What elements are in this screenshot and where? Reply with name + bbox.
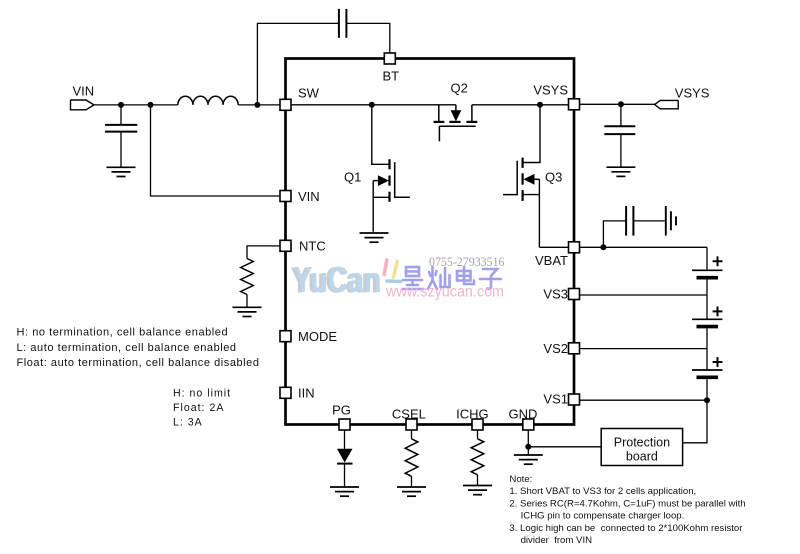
wire SW up to bootstrap capacitor [257,23,339,105]
protection board box [601,429,682,466]
svg-text:YuCan: YuCan [294,259,382,300]
wire VS2 net down to B3 [706,349,708,370]
junction dot C1 [118,102,124,108]
svg-text:VSYS: VSYS [675,86,710,101]
junction dot VS1 battery [704,397,710,403]
junction dot Q1 drain branch [369,102,375,108]
ground under Q1 [360,233,389,242]
svg-text:Note:: Note: [509,474,532,485]
node NTC pin label [299,239,326,254]
svg-text:0755-27933516: 0755-27933516 [429,254,505,269]
watermark website url [385,284,504,301]
svg-text:IIN: IIN [298,386,315,401]
wire B3 to VS1 net [706,379,708,400]
wire B1 to VS3 net [706,280,708,296]
node VS3 pin label [543,287,568,302]
junction dot Q3 drain branch [537,102,543,108]
node BT pin label [383,69,400,84]
pin ICHG [472,419,483,430]
svg-text:Q2: Q2 [451,81,468,96]
node VSYS output terminal [655,100,679,108]
capacitor C2 bootstrap BT cap [339,9,347,38]
node Q2 label [451,81,468,96]
resistor R3 on ICHG pin [471,430,484,485]
node IIN pin label [298,386,315,401]
node VIN label [73,84,95,99]
pin VS2 [569,343,580,354]
wire VS3 pin to battery stack [580,294,708,296]
svg-text:VS3: VS3 [543,287,568,302]
svg-text:H: no limit: H: no limit [173,388,231,400]
wire SW net to Q2 drain side [291,104,456,106]
svg-text:NTC: NTC [299,239,326,254]
ground under ICHG resistor [463,486,492,495]
svg-text:L: 3A: L: 3A [173,417,203,429]
svg-text:GND: GND [509,406,538,421]
battery cell B1 [692,256,723,277]
node protection board label [614,436,670,464]
node VBAT pin label [535,253,568,268]
svg-text:VIN: VIN [298,189,320,204]
wire battery stack column top [706,247,708,270]
pin BT [384,53,395,64]
pin CSEL [406,419,417,430]
watermark flower mark [384,260,400,282]
node VIN pin label [298,189,320,204]
svg-text:ICHG pin to compensate charger: ICHG pin to compensate charger loop. [521,511,685,522]
svg-text:L: auto termination, cell bala: L: auto termination, cell balance enable… [17,342,237,354]
svg-text:Float: auto termination, cell: Float: auto termination, cell balance di… [17,357,260,369]
svg-text:3. Logic high can be connecte: 3. Logic high can be connected to 2*100K… [509,523,743,534]
battery cell B2 [692,307,723,327]
wire Q3 source to VBAT pin [539,246,569,248]
watermark YuCan logo text [291,259,382,301]
watermark phone number 0755-27933516 [429,254,505,269]
node VS2 pin label [543,341,568,356]
node MODE options annotation [17,327,260,370]
node VIN input terminal [71,100,95,110]
svg-text:CSEL: CSEL [392,406,426,421]
pin VS3 [569,289,580,300]
svg-text:www.szyucan.com: www.szyucan.com [385,284,504,301]
capacitor C3 VSYS output cap [604,104,635,167]
wire VS3 net down to B2 [706,295,708,319]
node ICHG pin label [456,406,489,421]
node MODE pin label [298,329,337,344]
junction dot VIN branch [148,102,154,108]
wire VSYS pin to output tag [580,103,656,105]
pin IIN [280,387,291,398]
svg-text:VIN: VIN [73,84,95,99]
svg-text:Q1: Q1 [344,170,361,185]
junction dot SW/BT branch [254,102,260,108]
inductor L1 [178,96,238,105]
node Q3 label [545,170,562,185]
svg-text:ICHG: ICHG [456,406,489,421]
pin PG [339,419,350,430]
svg-text:H: no termination, cell balanc: H: no termination, cell balance enabled [17,327,229,339]
node Q1 label [344,170,361,185]
watermark Chinese characters [402,267,501,289]
wire bootstrap cap to BT pin [346,23,389,53]
wire GND pin to ground [527,430,529,455]
junction dot GND net [525,444,531,450]
diode D1 on PG pin [337,430,353,487]
svg-text:VBAT: VBAT [535,253,568,268]
op-amp U1 charger IC body [286,59,575,425]
pin SW [280,99,291,110]
capacitor C4 compensation cap [626,206,665,236]
node bottom note text [509,474,745,546]
capacitor C1 input cap [105,105,137,167]
wire inductor to SW pin [238,104,280,106]
pin VSYS [569,99,580,110]
wire VS1 pin to battery stack [580,399,708,401]
node PG pin label [332,403,351,418]
svg-text:SW: SW [298,86,320,101]
wire Q2 source side to VSYS pin [472,104,569,106]
node SW pin label [298,86,320,101]
wire VIN branch down to VIN pin [151,105,281,196]
wire VS2 pin to battery stack [580,348,708,350]
wire VBAT pin to battery stack [580,246,708,248]
svg-text:board: board [626,450,658,464]
resistor R1 NTC thermistor [241,259,254,307]
pin VBAT [569,242,580,253]
ground under CSEL resistor [397,487,426,496]
wire NTC pin to thermistor [247,246,280,259]
svg-text:2. Series RC(R=4.7Kohm, C=1uF): 2. Series RC(R=4.7Kohm, C=1uF) must be p… [509,498,745,509]
resistor R2 on CSEL pin [405,430,418,487]
svg-text:VS2: VS2 [543,341,568,356]
wire VBAT branch to compensation cap [603,221,625,247]
ground sideways at compensation cap [666,206,676,236]
svg-text:divider from VIN: divider from VIN [521,535,593,546]
node VSYS pin label [533,83,568,98]
svg-text:1. Short VBAT to VS3 for 2 cel: 1. Short VBAT to VS3 for 2 cells applica… [509,486,696,497]
svg-text:MODE: MODE [298,329,337,344]
wire VS1 down to protection board [683,400,707,443]
transistor Q2 pass FET [434,105,478,142]
battery cell B3 [692,357,723,377]
wire GND to protection board [528,446,601,448]
transistor Q3 battery FET [503,105,540,248]
svg-text:BT: BT [383,69,400,84]
node GND pin label [509,406,538,421]
pin MODE [280,331,291,342]
pin VIN [280,191,291,202]
node CSEL pin label [392,406,426,421]
svg-text:Float: 2A: Float: 2A [173,402,224,414]
svg-text:Q3: Q3 [545,170,562,185]
ground under VSYS cap [606,167,635,176]
pin GND [523,419,534,430]
ground under C1 [107,167,136,176]
transistor Q1 low-side FET [372,105,410,232]
ground under PG diode [330,487,359,496]
svg-text:Protection: Protection [614,436,670,450]
svg-text:VSYS: VSYS [533,83,568,98]
junction dot VSYS cap [618,101,624,107]
svg-text:PG: PG [332,403,351,418]
wire VIN tag to inductor [94,104,178,106]
wire B2 to VS2 net [706,328,708,348]
ground under NTC resistor [233,307,262,316]
node VSYS output label [675,86,710,101]
svg-text:VS1: VS1 [543,391,568,406]
node IIN options annotation [173,388,231,429]
ground at GND pin [514,455,543,464]
pin NTC [280,240,291,251]
pin VS1 [569,394,580,405]
junction dot VBAT branch [600,244,606,250]
node VS1 pin label [543,391,568,406]
